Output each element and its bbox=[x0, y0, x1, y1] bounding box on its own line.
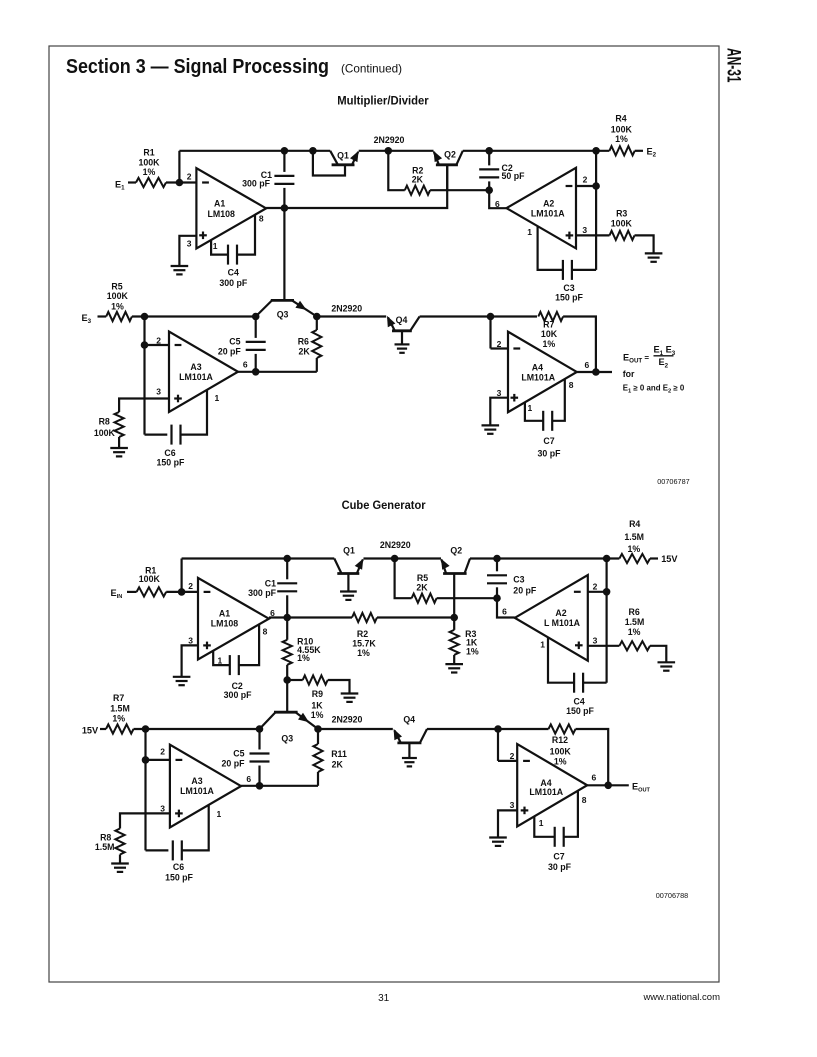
svg-text:LM101A: LM101A bbox=[529, 787, 563, 797]
svg-text:2K: 2K bbox=[299, 347, 311, 357]
svg-text:20 pF: 20 pF bbox=[218, 347, 242, 357]
svg-text:150 pF: 150 pF bbox=[156, 458, 184, 468]
svg-text:1.5M: 1.5M bbox=[625, 617, 645, 627]
svg-text:31: 31 bbox=[378, 993, 390, 1004]
svg-text:E1: E1 bbox=[115, 179, 125, 191]
svg-text:30 pF: 30 pF bbox=[548, 862, 572, 872]
svg-text:1.5M: 1.5M bbox=[624, 532, 644, 542]
svg-text:8: 8 bbox=[259, 214, 264, 224]
svg-text:2: 2 bbox=[583, 174, 588, 184]
svg-text:2: 2 bbox=[593, 582, 598, 592]
svg-text:C6: C6 bbox=[173, 862, 184, 872]
svg-text:1%: 1% bbox=[628, 627, 641, 637]
svg-text:3: 3 bbox=[582, 225, 587, 235]
svg-text:E1 E3: E1 E3 bbox=[654, 345, 676, 357]
svg-text:EOUT =: EOUT = bbox=[623, 353, 649, 365]
svg-text:100K: 100K bbox=[138, 157, 160, 167]
svg-text:EOUT: EOUT bbox=[632, 781, 651, 793]
svg-text:A3: A3 bbox=[190, 362, 201, 372]
svg-text:A4: A4 bbox=[532, 362, 543, 372]
svg-text:A1: A1 bbox=[214, 199, 225, 209]
svg-text:C7: C7 bbox=[543, 436, 554, 446]
svg-text:L M101A: L M101A bbox=[544, 618, 581, 628]
svg-text:3: 3 bbox=[156, 386, 161, 396]
svg-text:R4: R4 bbox=[615, 114, 626, 124]
svg-text:15V: 15V bbox=[661, 554, 678, 564]
svg-text:6: 6 bbox=[246, 774, 251, 784]
svg-text:2K: 2K bbox=[332, 759, 344, 769]
svg-text:LM101A: LM101A bbox=[179, 372, 213, 382]
svg-text:E2: E2 bbox=[647, 147, 657, 159]
svg-text:1%: 1% bbox=[297, 653, 310, 663]
svg-text:1%: 1% bbox=[357, 648, 370, 658]
svg-text:C1: C1 bbox=[265, 578, 276, 588]
svg-text:6: 6 bbox=[585, 360, 590, 370]
svg-text:1%: 1% bbox=[554, 757, 567, 767]
svg-text:(Continued): (Continued) bbox=[341, 63, 402, 76]
svg-text:R1: R1 bbox=[143, 148, 154, 158]
svg-text:E3: E3 bbox=[82, 313, 92, 325]
svg-text:Q4: Q4 bbox=[403, 714, 415, 724]
svg-text:www.national.com: www.national.com bbox=[642, 992, 720, 1003]
svg-text:Cube Generator: Cube Generator bbox=[342, 498, 426, 512]
svg-text:1%: 1% bbox=[143, 167, 156, 177]
svg-text:100K: 100K bbox=[611, 219, 633, 229]
svg-text:100K: 100K bbox=[550, 746, 572, 756]
svg-text:R11: R11 bbox=[331, 749, 347, 759]
svg-text:8: 8 bbox=[263, 627, 268, 637]
svg-text:15V: 15V bbox=[82, 725, 99, 735]
svg-text:1: 1 bbox=[213, 241, 218, 251]
svg-text:2: 2 bbox=[510, 751, 515, 761]
svg-text:8: 8 bbox=[582, 795, 587, 805]
svg-text:R6: R6 bbox=[628, 607, 639, 617]
svg-text:1%: 1% bbox=[542, 339, 555, 349]
svg-text:Q2: Q2 bbox=[450, 545, 462, 555]
svg-text:6: 6 bbox=[592, 773, 597, 783]
svg-text:2: 2 bbox=[187, 172, 192, 182]
svg-text:6: 6 bbox=[243, 359, 248, 369]
svg-text:1: 1 bbox=[528, 403, 533, 413]
svg-text:300 pF: 300 pF bbox=[219, 278, 247, 288]
svg-text:1: 1 bbox=[215, 393, 220, 403]
svg-text:2N2920: 2N2920 bbox=[331, 303, 362, 313]
svg-text:300 pF: 300 pF bbox=[224, 690, 252, 700]
svg-text:R4: R4 bbox=[629, 519, 640, 529]
svg-text:A2: A2 bbox=[555, 608, 566, 618]
svg-text:3: 3 bbox=[160, 804, 165, 814]
svg-text:2N2920: 2N2920 bbox=[332, 715, 363, 725]
svg-text:100K: 100K bbox=[139, 574, 161, 584]
svg-text:50 pF: 50 pF bbox=[502, 171, 526, 181]
svg-text:R12: R12 bbox=[552, 735, 568, 745]
svg-text:1: 1 bbox=[527, 227, 532, 237]
svg-text:1%: 1% bbox=[615, 134, 628, 144]
svg-text:for: for bbox=[623, 369, 635, 379]
svg-text:C5: C5 bbox=[233, 749, 244, 759]
svg-text:1.5M: 1.5M bbox=[95, 842, 115, 852]
svg-text:Q2: Q2 bbox=[444, 150, 456, 160]
svg-text:1%: 1% bbox=[311, 710, 324, 720]
svg-text:R6: R6 bbox=[298, 337, 309, 347]
svg-text:LM101A: LM101A bbox=[180, 786, 214, 796]
svg-text:1%: 1% bbox=[112, 713, 125, 723]
svg-text:2: 2 bbox=[156, 335, 161, 345]
svg-text:C5: C5 bbox=[229, 337, 240, 347]
svg-text:R3: R3 bbox=[616, 208, 627, 218]
svg-text:LM101A: LM101A bbox=[521, 373, 555, 383]
svg-text:2K: 2K bbox=[412, 174, 424, 184]
svg-text:EIN: EIN bbox=[111, 588, 123, 600]
svg-text:C7: C7 bbox=[553, 852, 564, 862]
svg-text:LM108: LM108 bbox=[208, 209, 235, 219]
svg-text:E2: E2 bbox=[659, 357, 669, 369]
svg-text:C4: C4 bbox=[228, 268, 239, 278]
svg-text:Q1: Q1 bbox=[337, 151, 349, 161]
svg-text:Q3: Q3 bbox=[277, 310, 289, 320]
svg-text:20 pF: 20 pF bbox=[513, 586, 537, 596]
svg-text:150 pF: 150 pF bbox=[165, 872, 193, 882]
svg-text:R5: R5 bbox=[417, 573, 428, 583]
svg-text:3: 3 bbox=[593, 636, 598, 646]
svg-text:A3: A3 bbox=[191, 776, 202, 786]
svg-text:15.7K: 15.7K bbox=[352, 638, 376, 648]
svg-text:100K: 100K bbox=[94, 428, 116, 438]
svg-text:1.5M: 1.5M bbox=[110, 703, 130, 713]
svg-text:R5: R5 bbox=[111, 282, 122, 292]
svg-text:2: 2 bbox=[497, 339, 502, 349]
svg-text:2: 2 bbox=[160, 747, 165, 757]
svg-text:C4: C4 bbox=[573, 696, 584, 706]
svg-text:2N2920: 2N2920 bbox=[380, 540, 411, 550]
svg-text:1: 1 bbox=[539, 818, 544, 828]
svg-text:LM101A: LM101A bbox=[531, 209, 565, 219]
svg-text:10K: 10K bbox=[541, 329, 558, 339]
svg-text:1: 1 bbox=[540, 640, 545, 650]
svg-text:3: 3 bbox=[510, 800, 515, 810]
svg-text:Multiplier/Divider: Multiplier/Divider bbox=[337, 94, 429, 108]
svg-text:30 pF: 30 pF bbox=[538, 448, 562, 458]
svg-text:R7: R7 bbox=[113, 693, 124, 703]
svg-text:2K: 2K bbox=[416, 583, 428, 593]
svg-text:R9: R9 bbox=[312, 689, 323, 699]
svg-text:E1 ≥ 0 and E2 ≥ 0: E1 ≥ 0 and E2 ≥ 0 bbox=[623, 383, 685, 394]
svg-text:Section 3 — Signal Processing: Section 3 — Signal Processing bbox=[66, 56, 329, 78]
svg-text:150 pF: 150 pF bbox=[566, 706, 594, 716]
svg-text:LM108: LM108 bbox=[211, 619, 238, 629]
svg-text:3: 3 bbox=[187, 239, 192, 249]
svg-text:3: 3 bbox=[188, 636, 193, 646]
svg-text:Q3: Q3 bbox=[281, 734, 293, 744]
svg-text:C6: C6 bbox=[164, 448, 175, 458]
svg-text:Q1: Q1 bbox=[343, 545, 355, 555]
svg-text:A2: A2 bbox=[543, 198, 554, 208]
svg-text:2N2920: 2N2920 bbox=[374, 135, 405, 145]
svg-text:6: 6 bbox=[502, 607, 507, 617]
svg-text:3: 3 bbox=[497, 388, 502, 398]
svg-text:2: 2 bbox=[188, 581, 193, 591]
svg-text:300 pF: 300 pF bbox=[248, 588, 276, 598]
svg-text:00706788: 00706788 bbox=[656, 891, 688, 900]
svg-text:C3: C3 bbox=[563, 283, 574, 293]
svg-text:150 pF: 150 pF bbox=[555, 293, 583, 303]
svg-text:C3: C3 bbox=[513, 575, 524, 585]
svg-text:8: 8 bbox=[569, 380, 574, 390]
svg-text:100K: 100K bbox=[107, 291, 129, 301]
svg-text:R8: R8 bbox=[99, 417, 110, 427]
svg-text:20 pF: 20 pF bbox=[222, 759, 246, 769]
svg-text:300 pF: 300 pF bbox=[242, 179, 270, 189]
svg-text:Q4: Q4 bbox=[396, 315, 408, 325]
svg-text:1%: 1% bbox=[628, 544, 641, 554]
svg-text:1: 1 bbox=[217, 809, 222, 819]
svg-text:1%: 1% bbox=[111, 302, 124, 312]
svg-text:1%: 1% bbox=[466, 647, 479, 657]
svg-text:00706787: 00706787 bbox=[657, 477, 689, 486]
svg-text:A1: A1 bbox=[219, 609, 230, 619]
svg-text:AN-31: AN-31 bbox=[723, 48, 744, 83]
